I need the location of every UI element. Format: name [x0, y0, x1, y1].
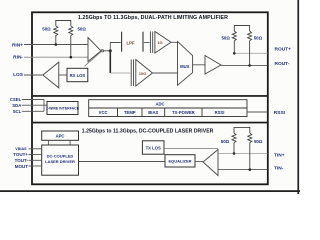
wire RX LOS tap: [85, 51, 103, 67]
svg-text:TIN+: TIN+: [274, 153, 285, 159]
wire RIN-: [24, 56, 88, 58]
wire amp 1G to MUX: [171, 41, 178, 43]
wire RSSI out: [247, 111, 268, 113]
wire TX LOS tap: [164, 147, 218, 149]
svg-text:10G: 10G: [139, 71, 147, 76]
wire APC to driver: [48, 140, 70, 145]
EQUALIZER block: [165, 155, 195, 167]
svg-text:TX LOS: TX LOS: [146, 145, 161, 150]
svg-text:TOUT+: TOUT+: [13, 152, 28, 157]
wire lower path: [109, 51, 111, 73]
resistor 50ohm TIN+ termination: [232, 127, 250, 153]
wire RX LOS to inverter: [59, 74, 67, 76]
wire SCL: [22, 110, 44, 112]
svg-text:TEMP: TEMP: [124, 110, 136, 115]
LOS inverter: [43, 62, 59, 88]
node main: [109, 49, 112, 52]
wire driver to equalizer: [79, 161, 166, 163]
capacitor bar (LPF right): [142, 32, 144, 52]
svg-text:1.25Gbps TO 11.3Gbps, DUAL-PAT: 1.25Gbps TO 11.3Gbps, DUAL-PATH LIMITING…: [78, 15, 228, 21]
DC-coupled laser driver block: [42, 145, 79, 175]
svg-text:EQUALIZER: EQUALIZER: [168, 159, 191, 164]
wire TIN+: [218, 152, 268, 154]
section divider (registers / laser driver): [33, 122, 267, 124]
wire ROUT+: [234, 52, 267, 54]
wire TOUT-: [29, 159, 42, 161]
svg-text:CSEL: CSEL: [10, 97, 22, 102]
svg-text:MUX: MUX: [180, 64, 190, 69]
RX LOS block: [67, 68, 88, 81]
wire MOUT: [29, 165, 42, 167]
svg-text:LASER DRIVER: LASER DRIVER: [45, 159, 75, 164]
TX LOS block: [142, 141, 164, 154]
svg-text:2-WIRE INTERFACE: 2-WIRE INTERFACE: [46, 107, 80, 111]
section divider (limiting amp / registers): [33, 95, 267, 97]
wire TOUT+: [29, 154, 42, 156]
svg-text:RSSI: RSSI: [274, 110, 286, 116]
svg-text:MOUT: MOUT: [15, 164, 28, 169]
svg-text:VCC: VCC: [99, 110, 108, 115]
wire ROUT-: [221, 64, 268, 66]
wire LPF to amp 1G: [144, 42, 150, 44]
svg-text:50Ω: 50Ω: [221, 36, 230, 41]
junction ROUT- / R4: [248, 64, 251, 67]
resistor 50ohm ROUT+ pullup: [232, 26, 249, 54]
output buffer amp: [205, 56, 221, 75]
svg-text:SDA: SDA: [12, 103, 21, 108]
svg-text:TOUT-: TOUT-: [15, 158, 29, 163]
limiting amp 10G (multistage): [131, 60, 152, 87]
svg-text:RSSI: RSSI: [215, 110, 225, 115]
wire buffer output node: [104, 50, 111, 52]
svg-text:BIAS: BIAS: [148, 110, 158, 115]
limiting amp 1G (multistage): [150, 32, 171, 54]
wire RIN+: [24, 44, 88, 46]
junction ROUT+ / R3: [233, 52, 236, 55]
wire LOS: [24, 74, 43, 76]
svg-text:ROUT+: ROUT+: [275, 46, 292, 52]
2-wire interface block: [46, 102, 80, 115]
wire equalizer input: [195, 161, 203, 163]
wire VBIAS: [29, 148, 42, 150]
svg-text:DC-COUPLED: DC-COUPLED: [47, 153, 74, 158]
APC block: [42, 131, 79, 140]
svg-text:50Ω: 50Ω: [254, 139, 263, 144]
input buffer amp: [88, 38, 104, 62]
svg-text:APC: APC: [56, 134, 65, 139]
svg-text:50Ω: 50Ω: [254, 36, 263, 41]
wire MUX to output buffer: [193, 64, 205, 66]
resistor 50ohm TIN- termination: [248, 133, 252, 170]
capacitor bar (LPF left): [121, 32, 123, 52]
ADC register table: [89, 100, 247, 117]
svg-text:LPF: LPF: [127, 40, 135, 45]
svg-text:V BIAS: V BIAS: [15, 147, 27, 151]
wire CSEL: [22, 99, 44, 101]
resistor 50ohm ROUT- pullup: [248, 31, 252, 65]
junction RIN-/R2: [70, 56, 73, 59]
resistor 50ohm RIN+ termination: [54, 21, 71, 45]
wire amp 10G to MUX: [153, 72, 178, 74]
junction TIN- / R6: [249, 168, 252, 171]
junction RIN+/R1: [55, 43, 58, 46]
wire 2-wire bus join: [44, 100, 47, 112]
svg-text:50Ω: 50Ω: [77, 27, 86, 32]
svg-text:RIN+: RIN+: [12, 42, 23, 48]
svg-text:ADC: ADC: [155, 102, 164, 107]
svg-text:LOS: LOS: [13, 72, 24, 78]
IC outline U1: [32, 12, 268, 184]
svg-text:TIN-: TIN-: [274, 165, 284, 171]
svg-text:50Ω: 50Ω: [42, 27, 51, 32]
svg-text:RIN-: RIN-: [13, 55, 23, 61]
svg-text:RX LOS: RX LOS: [70, 73, 86, 78]
wire TIN-: [218, 169, 268, 171]
svg-text:ROUT-: ROUT-: [275, 61, 290, 67]
svg-text:1G: 1G: [157, 40, 162, 45]
wire SDA: [22, 104, 44, 106]
svg-text:SCL: SCL: [13, 109, 22, 114]
svg-text:TX-POWER: TX-POWER: [172, 110, 195, 115]
svg-text:50Ω: 50Ω: [221, 139, 230, 144]
wire upper path to LPF: [110, 43, 120, 51]
junction TIN+ / R5: [233, 152, 236, 155]
TIN input buffer amp: [203, 150, 218, 176]
resistor 50ohm RIN- termination: [69, 26, 73, 57]
svg-text:1.25Gbps to 11.3Gbps, DC-COUPL: 1.25Gbps to 11.3Gbps, DC-COUPLED LASER D…: [82, 129, 214, 135]
MUX: [178, 41, 193, 85]
